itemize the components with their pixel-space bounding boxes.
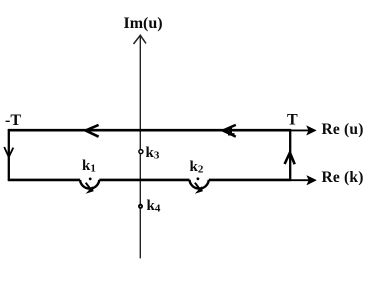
k1 indentation arc <box>80 180 99 189</box>
svg-text:k1: k1 <box>82 158 96 175</box>
k2 indentation arc <box>190 180 209 189</box>
contour top line (Re(u) axis) <box>8 129 291 132</box>
top line arrow 1 (pointing left) <box>86 125 99 137</box>
k4 pole (filled circle) <box>138 204 143 209</box>
contour bottom line (Re(k) axis) segment 1 <box>8 179 80 182</box>
k3 pole (open circle) <box>139 150 143 154</box>
k1 arc arrowhead <box>86 186 94 193</box>
svg-text:k3: k3 <box>146 145 160 162</box>
k2 pole dot <box>197 177 200 180</box>
k1 pole dot <box>89 178 92 181</box>
contour left edge <box>8 129 10 181</box>
svg-text:k4: k4 <box>147 198 161 215</box>
Im axis arrowhead <box>134 35 147 44</box>
Re(u) axis arrowhead <box>307 126 317 135</box>
svg-text:-T: -T <box>5 112 21 129</box>
left edge downward arrowhead <box>4 147 13 157</box>
contour right edge <box>289 129 291 181</box>
svg-text:Re (u): Re (u) <box>322 121 364 138</box>
svg-text:Im(u): Im(u) <box>124 15 163 32</box>
bottom line segment 3 <box>209 179 291 182</box>
k2 arc arrowhead <box>195 186 203 193</box>
right edge upward arrowhead <box>285 153 295 165</box>
top line arrow 2 (pointing left, solid) <box>223 125 236 137</box>
bottom line segment 2 <box>99 179 189 182</box>
svg-text:Re (k): Re (k) <box>322 169 364 186</box>
Re(k) axis arrowhead <box>307 176 317 185</box>
k2 arc arrow tick <box>195 183 200 190</box>
svg-text:k2: k2 <box>190 159 204 176</box>
svg-text:T: T <box>287 112 298 129</box>
Im axis vertical line <box>139 36 141 259</box>
k1 arc arrow tick <box>86 183 91 190</box>
